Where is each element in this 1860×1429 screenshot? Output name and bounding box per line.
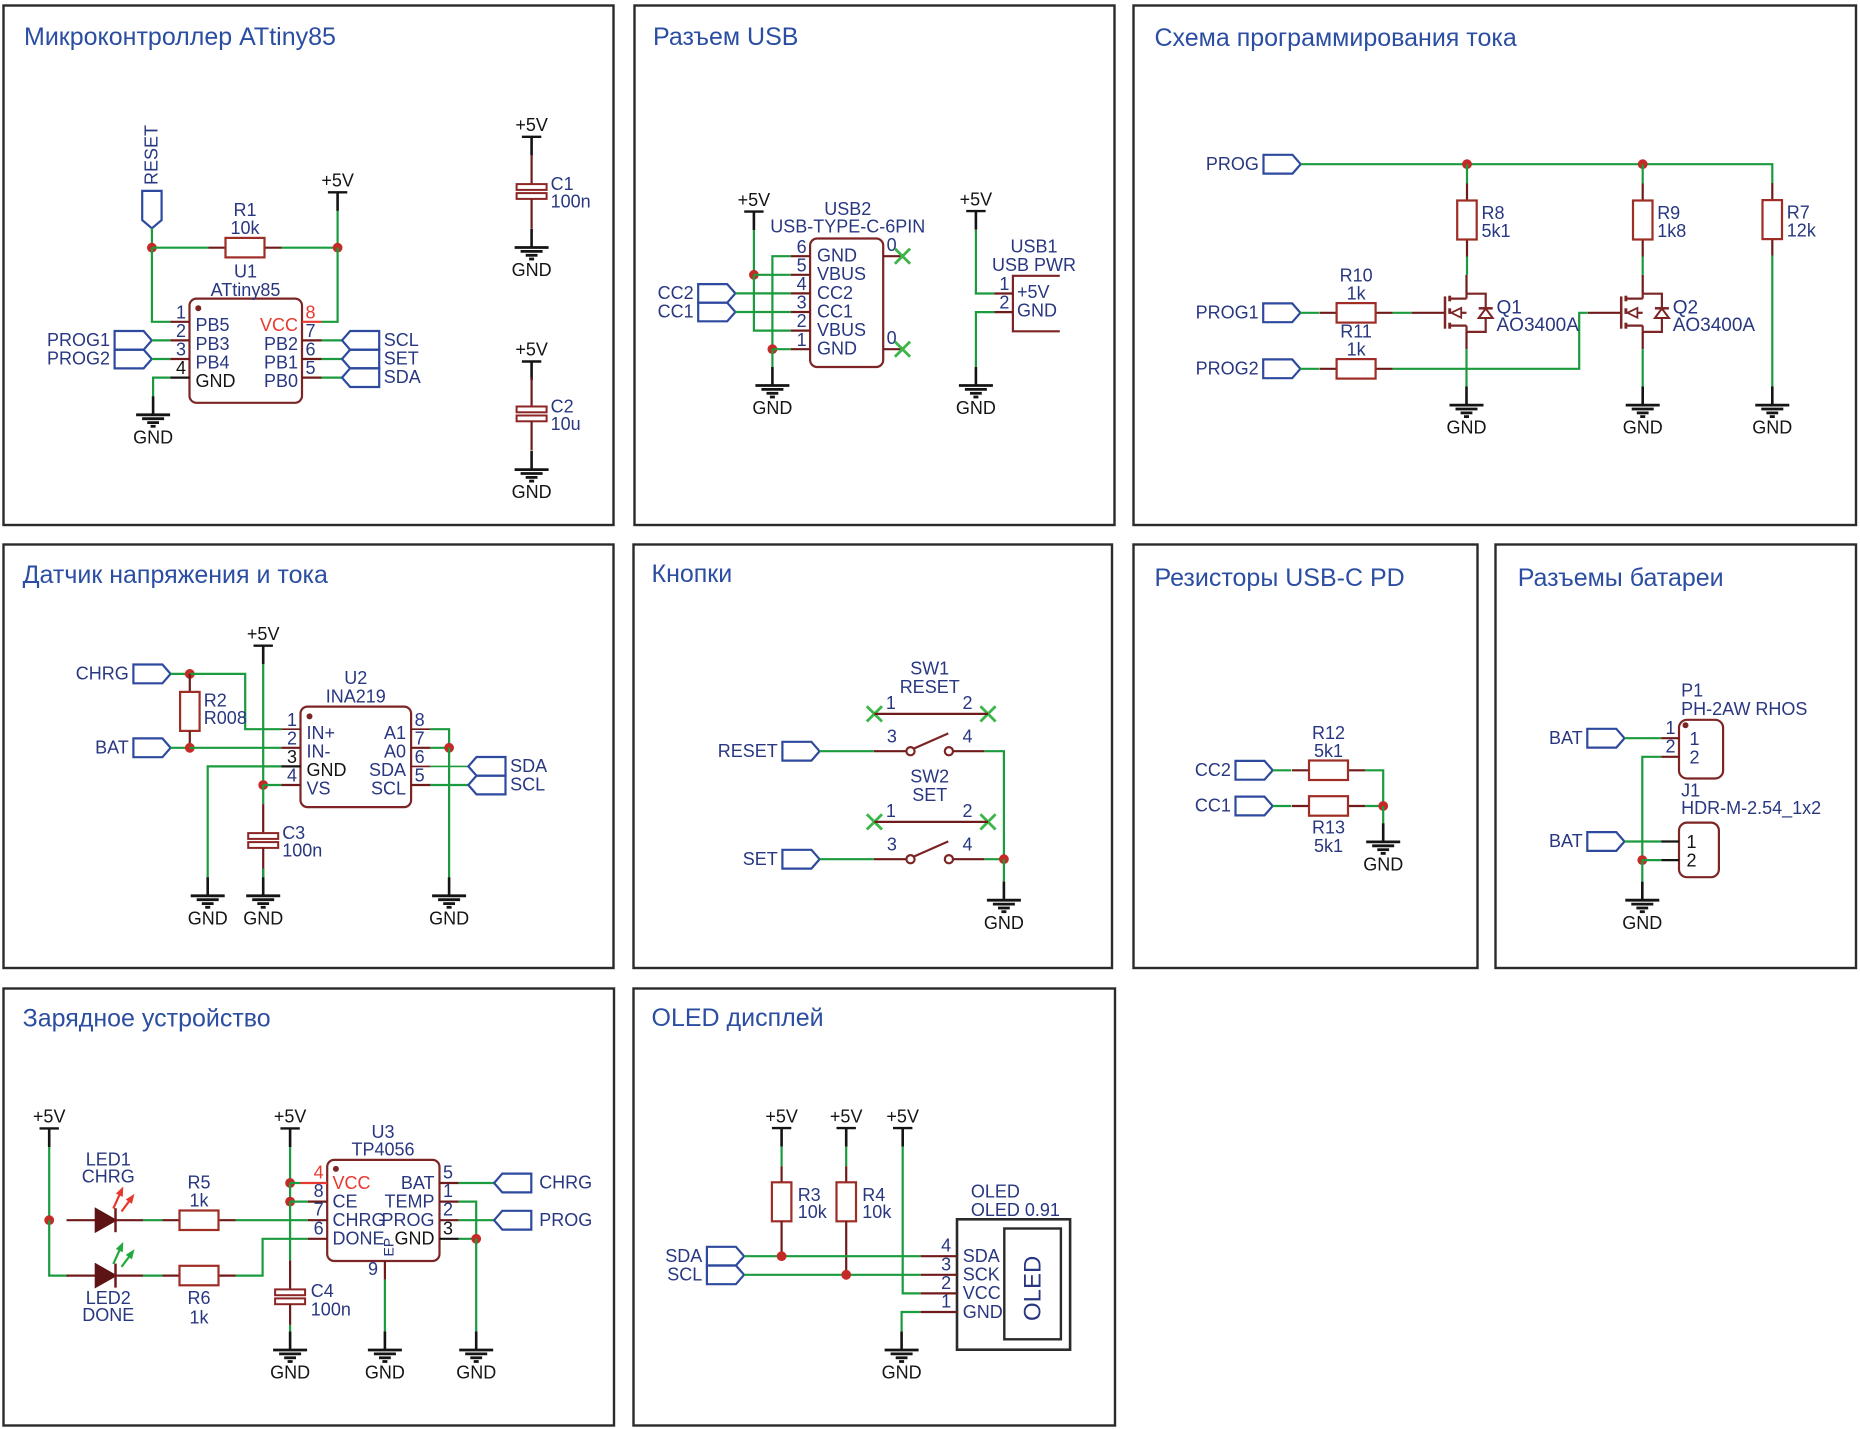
svg-text:1: 1 xyxy=(1690,729,1700,749)
ground under C1 xyxy=(512,229,552,280)
USB2 pin 0 bottom-right shield xyxy=(883,328,902,349)
junction RESET node left of R1 xyxy=(147,243,157,253)
ground USB-C PD xyxy=(1363,823,1403,874)
svg-text:8: 8 xyxy=(415,710,425,730)
junction VCC node xyxy=(285,1178,295,1188)
wire Q1 source to ground xyxy=(1465,349,1467,386)
svg-text:GND: GND xyxy=(963,1302,1003,1322)
wire PROG node down to R8 xyxy=(1466,164,1468,183)
svg-text:5k1: 5k1 xyxy=(1314,836,1343,856)
wire VS node down to C3 xyxy=(262,785,264,804)
resistor R11 (1k) xyxy=(1320,321,1393,378)
USB2 pin 0 top-right shield xyxy=(883,235,902,256)
wire SDA to OLED pin4 xyxy=(744,1255,921,1257)
wire U2 SCL to port xyxy=(430,784,468,786)
svg-text:1: 1 xyxy=(176,302,186,322)
svg-text:SCL: SCL xyxy=(510,775,545,795)
svg-text:OLED: OLED xyxy=(1020,1256,1047,1321)
panel frame: Разъем USB xyxy=(635,6,1115,526)
no-connect X SW1 pin1 xyxy=(867,706,882,721)
svg-text:+5V: +5V xyxy=(738,190,771,210)
resistor R6 (1k) xyxy=(163,1266,236,1328)
svg-text:8: 8 xyxy=(306,302,316,322)
svg-text:7: 7 xyxy=(415,728,425,748)
P1 pin 1 xyxy=(1661,718,1699,749)
svg-text:1k: 1k xyxy=(1347,339,1367,359)
svg-text:1: 1 xyxy=(443,1181,453,1201)
svg-text:1: 1 xyxy=(886,801,896,821)
op-amp U2 INA219 body xyxy=(301,668,412,807)
svg-text:GND: GND xyxy=(133,427,173,447)
svg-text:RESET: RESET xyxy=(142,125,162,185)
svg-text:3: 3 xyxy=(887,726,897,746)
junction battery GND node xyxy=(1637,855,1647,865)
wire +5V down to USB1 pin1 xyxy=(976,230,994,294)
U3 pin 6 DONE xyxy=(308,1218,385,1248)
net port RESET (vertical flag) xyxy=(142,125,162,228)
no-connect X USB2 shield top xyxy=(895,249,910,264)
svg-text:GND: GND xyxy=(243,908,283,928)
svg-text:4: 4 xyxy=(941,1236,951,1256)
svg-text:R8: R8 xyxy=(1482,203,1505,223)
junction R3/SDA node xyxy=(777,1251,787,1261)
svg-text:OLED: OLED xyxy=(971,1181,1020,1201)
wire P1 pin2 down to node xyxy=(1642,757,1661,860)
svg-text:9: 9 xyxy=(368,1259,378,1279)
svg-text:SET: SET xyxy=(912,785,947,805)
svg-text:PB2: PB2 xyxy=(264,334,298,354)
connector J1 HDR-M-2.54_1x2 body xyxy=(1679,780,1821,877)
U3 pin 3 GND xyxy=(395,1218,459,1248)
svg-text:6: 6 xyxy=(797,237,807,257)
svg-text:ATtiny85: ATtiny85 xyxy=(211,280,281,300)
net port SCL (panel 9) xyxy=(667,1264,744,1284)
junction BAT/R2 node xyxy=(185,743,195,753)
net port PROG (panel 8) xyxy=(494,1210,592,1230)
svg-text:GND: GND xyxy=(1752,418,1792,438)
wire BAT to J1 pin1 xyxy=(1625,840,1662,842)
no-connect X USB2 shield bottom xyxy=(895,342,910,357)
junction SW node to GND xyxy=(999,854,1009,864)
ground under EP xyxy=(365,1331,405,1382)
J1 pin 1 xyxy=(1661,832,1696,852)
svg-text:4: 4 xyxy=(797,274,807,294)
svg-text:3: 3 xyxy=(287,747,297,767)
wire PROG2 to R11 xyxy=(1300,368,1319,370)
junction R12/R13 node xyxy=(1378,801,1388,811)
wire U1 pin6 to SET port xyxy=(322,358,343,360)
OLED pin 2 VCC xyxy=(921,1273,1001,1303)
panel frame: Схема программирования тока xyxy=(1134,6,1857,526)
svg-text:Микроконтроллер ATtiny85: Микроконтроллер ATtiny85 xyxy=(24,23,336,51)
+5V power LED supply xyxy=(33,1107,66,1147)
+5V power U3 supply xyxy=(274,1107,307,1147)
wire U3 TEMP down to GND node xyxy=(459,1202,476,1239)
svg-text:3: 3 xyxy=(941,1254,951,1274)
svg-text:Кнопки: Кнопки xyxy=(652,560,733,588)
svg-text:5k1: 5k1 xyxy=(1314,741,1343,761)
svg-text:A0: A0 xyxy=(384,741,406,761)
svg-text:3: 3 xyxy=(443,1218,453,1238)
U3 pin 9 EP xyxy=(368,1259,385,1280)
svg-text:2: 2 xyxy=(1687,851,1697,871)
svg-text:PB4: PB4 xyxy=(196,352,230,372)
U1 pin 1 PB5 xyxy=(170,302,229,335)
U3 pin 2 PROG xyxy=(381,1200,458,1230)
net port SCL xyxy=(342,330,419,350)
svg-text:VBUS: VBUS xyxy=(817,320,866,340)
Q2 drain stub xyxy=(1642,275,1644,294)
svg-text:R7: R7 xyxy=(1787,203,1810,223)
svg-text:1k: 1k xyxy=(189,1191,209,1211)
wire CC2 port to USB2 pin4 xyxy=(735,292,790,294)
U3 pin 7 CHRG xyxy=(308,1200,386,1230)
svg-text:2: 2 xyxy=(963,693,973,713)
USB2 pin 6 GND xyxy=(791,237,857,266)
wire GND node to USB2 pin1 xyxy=(772,348,790,350)
svg-text:SDA: SDA xyxy=(510,756,547,776)
svg-text:CHRG: CHRG xyxy=(333,1210,386,1230)
svg-text:+5V: +5V xyxy=(33,1107,66,1127)
svg-text:Резисторы USB-C PD: Резисторы USB-C PD xyxy=(1155,564,1405,592)
resistor R9 (1k8) xyxy=(1633,184,1686,257)
wire SW1 pin4 to vertical xyxy=(984,751,1004,859)
U1 pin 2 PB3 xyxy=(170,321,229,354)
U3 pin 5 BAT xyxy=(401,1163,459,1193)
op-amp U3 TP4056 body xyxy=(327,1122,439,1261)
svg-text:R5: R5 xyxy=(187,1173,210,1193)
junction LED1 anode node xyxy=(44,1215,54,1225)
resistor R10 (1k) xyxy=(1320,265,1393,322)
net port SDA xyxy=(342,367,421,387)
U2 pin 1 IN+ xyxy=(281,710,335,743)
transistor Q2 AO3400A xyxy=(1588,294,1756,336)
wire C3 bottom to ground xyxy=(262,869,264,878)
svg-text:DONE: DONE xyxy=(82,1305,134,1325)
svg-text:GND: GND xyxy=(365,1363,405,1383)
svg-text:BAT: BAT xyxy=(1549,831,1583,851)
ground battery xyxy=(1622,882,1662,933)
junction GND pin1 node xyxy=(768,344,778,354)
svg-text:GND: GND xyxy=(1363,855,1403,875)
wire CHRG to junction xyxy=(171,673,190,675)
svg-text:USB-TYPE-C-6PIN: USB-TYPE-C-6PIN xyxy=(770,217,925,237)
svg-text:GND: GND xyxy=(512,482,552,502)
+5V power R3 supply xyxy=(765,1106,798,1146)
+5V power R4 supply xyxy=(830,1106,863,1146)
+5V power USB1 xyxy=(960,189,993,229)
svg-text:+5V: +5V xyxy=(886,1106,919,1126)
wire node down to ground xyxy=(1003,859,1005,881)
no-connect X SW2 pin1 xyxy=(867,814,882,829)
svg-text:Разъемы батареи: Разъемы батареи xyxy=(1518,564,1724,592)
wire U3 PROG to PROG port xyxy=(459,1219,494,1221)
U1 pin 3 PB4 xyxy=(170,340,229,373)
svg-text:VCC: VCC xyxy=(333,1173,371,1193)
svg-text:GND: GND xyxy=(188,908,228,928)
R2 top pin wire xyxy=(189,674,191,692)
svg-text:TP4056: TP4056 xyxy=(351,1140,414,1160)
wire C4 bottom to ground xyxy=(289,1325,291,1332)
wire R13 to node xyxy=(1365,805,1383,807)
wire +5V node down to U1 pin8 VCC xyxy=(322,248,338,322)
svg-text:100n: 100n xyxy=(311,1299,351,1319)
wire R7 bottom to ground xyxy=(1771,255,1773,386)
svg-text:PROG: PROG xyxy=(381,1210,434,1230)
wire U2 pin3 GND to ground xyxy=(208,766,282,877)
wire node down to ground xyxy=(1641,860,1643,882)
svg-text:3: 3 xyxy=(176,340,186,360)
panel frame: OLED дисплей xyxy=(634,989,1116,1426)
svg-text:1: 1 xyxy=(797,330,807,350)
wire U2 SDA to port xyxy=(430,765,468,767)
no-connect X SW2 pin2 xyxy=(980,814,995,829)
panel frame: Разъемы батареи xyxy=(1496,545,1857,969)
resistor R7 (12k) xyxy=(1763,183,1817,256)
svg-text:P1: P1 xyxy=(1681,681,1703,701)
svg-text:4: 4 xyxy=(314,1163,324,1183)
U2 pin 4 VS xyxy=(281,766,330,799)
svg-text:6: 6 xyxy=(415,747,425,767)
junction CE node xyxy=(285,1197,295,1207)
wire BAT node to U2 pin2 IN- xyxy=(190,747,281,749)
wire USB1 pin2 to ground xyxy=(976,312,994,367)
wire R9 bottom to Q2 drain xyxy=(1642,257,1644,275)
ground under C4 xyxy=(270,1331,310,1382)
Q1 source stub xyxy=(1465,332,1467,349)
svg-text:+5V: +5V xyxy=(515,115,548,135)
svg-text:1k: 1k xyxy=(1347,283,1367,303)
net port SCL (panel 4) xyxy=(468,775,545,795)
wire junction down to U1 pin1 xyxy=(152,248,170,322)
net port PROG xyxy=(1206,154,1301,174)
wire R12 to bend xyxy=(1365,770,1383,806)
wire U1 pin5 to SDA port xyxy=(322,377,343,379)
wire OLED GND pin to ground xyxy=(902,1312,921,1331)
svg-text:R10: R10 xyxy=(1340,265,1373,285)
resistor R2 (R008) xyxy=(180,690,247,747)
svg-text:+5V: +5V xyxy=(960,189,993,209)
svg-text:5k1: 5k1 xyxy=(1482,221,1511,241)
svg-text:VCC: VCC xyxy=(963,1283,1001,1303)
wire +5V down to VCC junction xyxy=(289,1147,291,1183)
ground left under U2 xyxy=(188,877,228,928)
svg-text:2: 2 xyxy=(287,728,297,748)
net port BAT xyxy=(1549,831,1624,851)
svg-text:R13: R13 xyxy=(1312,818,1345,838)
U2 pin 2 IN- xyxy=(281,728,330,761)
ground under C2 xyxy=(512,451,552,502)
U2 pin 5 SCL xyxy=(371,766,430,799)
wire R8 bottom to Q1 drain xyxy=(1466,257,1468,275)
+5V power OLED VCC supply xyxy=(886,1106,919,1146)
wire LED1 cathode to R5 xyxy=(143,1219,163,1221)
USB2 pin 5 VBUS xyxy=(791,255,866,284)
wire PROG1 to R10 xyxy=(1300,312,1319,314)
wire R5 to U3 pin7 CHRG xyxy=(236,1219,308,1221)
svg-text:SDA: SDA xyxy=(369,760,406,780)
svg-text:3: 3 xyxy=(797,293,807,313)
svg-text:SDA: SDA xyxy=(963,1246,1000,1266)
svg-text:Датчик напряжения и тока: Датчик напряжения и тока xyxy=(23,561,328,589)
svg-text:U1: U1 xyxy=(234,261,257,281)
svg-text:GND: GND xyxy=(817,246,857,266)
svg-text:USB PWR: USB PWR xyxy=(992,255,1076,275)
svg-text:OLED 0.91: OLED 0.91 xyxy=(971,1200,1060,1220)
capacitor C1 (100n) xyxy=(517,155,591,228)
wire node down to ground xyxy=(475,1239,477,1332)
svg-text:10u: 10u xyxy=(551,414,581,434)
svg-text:GND: GND xyxy=(196,371,236,391)
wire SW2 pin4 to node xyxy=(984,858,1004,860)
svg-text:GND: GND xyxy=(956,398,996,418)
svg-text:5: 5 xyxy=(797,255,807,275)
svg-text:GND: GND xyxy=(1623,418,1663,438)
svg-text:VBUS: VBUS xyxy=(817,264,866,284)
wire EP to ground xyxy=(384,1280,386,1332)
Q1 drain stub xyxy=(1465,275,1467,294)
svg-text:2: 2 xyxy=(443,1200,453,1220)
svg-text:BAT: BAT xyxy=(95,737,129,757)
svg-text:INA219: INA219 xyxy=(326,686,386,706)
svg-text:USB1: USB1 xyxy=(1010,236,1057,256)
wire U3 GND to node xyxy=(459,1238,476,1240)
OLED pin 1 GND xyxy=(921,1292,1003,1322)
svg-text:SET: SET xyxy=(743,849,778,869)
resistor R8 (5k1) xyxy=(1457,184,1510,257)
svg-text:HDR-M-2.54_1x2: HDR-M-2.54_1x2 xyxy=(1681,798,1821,819)
net port CHRG xyxy=(76,664,171,684)
net port CC2 xyxy=(1195,760,1273,780)
ground under U3 right xyxy=(456,1331,496,1382)
svg-text:CC2: CC2 xyxy=(1195,760,1231,780)
svg-text:CHRG: CHRG xyxy=(82,1167,135,1187)
svg-text:GND: GND xyxy=(1447,418,1487,438)
svg-text:6: 6 xyxy=(306,340,316,360)
net port SDA (panel 9) xyxy=(665,1246,744,1266)
svg-text:DONE: DONE xyxy=(333,1229,385,1249)
svg-text:SCL: SCL xyxy=(384,330,419,350)
wire RESET port to SW1 xyxy=(820,750,874,752)
svg-text:+5V: +5V xyxy=(321,171,354,191)
wire U1 pin4 to ground xyxy=(153,378,170,397)
wire CC1 to R13 xyxy=(1273,805,1292,807)
svg-text:SDA: SDA xyxy=(665,1246,702,1266)
wire node down to ground xyxy=(1382,806,1384,823)
+5V power above C2 xyxy=(515,340,548,380)
net port CC1 xyxy=(1195,796,1273,816)
wire R10 to Q1 gate xyxy=(1393,312,1412,314)
svg-text:1k: 1k xyxy=(189,1308,209,1328)
USB1 pin 1 +5V xyxy=(994,274,1049,302)
junction PROG/R8 node xyxy=(1462,159,1472,169)
op-amp U1 ATtiny85 body xyxy=(190,261,303,402)
svg-text:100n: 100n xyxy=(551,191,591,211)
junction VBUS pin5 node xyxy=(749,270,759,280)
svg-text:R11: R11 xyxy=(1340,321,1372,341)
svg-text:GND: GND xyxy=(307,760,347,780)
junction +5V / R1 right node xyxy=(333,243,343,253)
net port CHRG (panel 8) xyxy=(494,1173,592,1193)
module OLED (OLED 0.91) body xyxy=(957,1181,1070,1349)
svg-text:A1: A1 xyxy=(384,723,406,743)
wire SET port to SW2 xyxy=(820,858,874,860)
wire SCL to OLED pin3 xyxy=(744,1274,921,1276)
switch SW2 (SET) xyxy=(874,766,988,863)
resistor R12 (5k1) xyxy=(1292,723,1365,780)
U1 pin 6 PB1 xyxy=(264,340,322,373)
wire PROG2 to U1 pin3 xyxy=(152,358,170,360)
svg-text:R008: R008 xyxy=(204,708,247,728)
svg-text:GND: GND xyxy=(1017,301,1057,321)
ground buttons xyxy=(984,882,1024,933)
svg-text:5: 5 xyxy=(443,1163,453,1183)
svg-text:1k8: 1k8 xyxy=(1657,221,1686,241)
wire BAT to junction xyxy=(171,747,190,749)
USB1 pin 2 GND xyxy=(994,293,1057,321)
svg-text:PH-2AW RHOS: PH-2AW RHOS xyxy=(1681,699,1807,719)
svg-text:PROG2: PROG2 xyxy=(47,349,110,369)
svg-text:PROG: PROG xyxy=(539,1210,592,1230)
USB2 pin 2 VBUS xyxy=(791,311,866,340)
resistor R1 (10k) xyxy=(209,200,282,257)
R4 top wire xyxy=(845,1147,847,1167)
svg-text:+5V: +5V xyxy=(247,624,280,644)
svg-text:PB1: PB1 xyxy=(264,352,298,372)
net port CC2 (panel 2) xyxy=(658,283,736,303)
svg-text:5: 5 xyxy=(306,358,316,378)
OLED pin 3 SCK xyxy=(921,1254,1000,1284)
ground under C3 xyxy=(243,877,283,928)
net port SET xyxy=(743,849,820,869)
svg-text:GND: GND xyxy=(395,1229,435,1249)
resistor R5 (1k) xyxy=(163,1173,236,1230)
net port CC1 (panel 2) xyxy=(658,302,736,322)
svg-text:U2: U2 xyxy=(344,668,367,688)
capacitor C4 (100n) xyxy=(275,1281,351,1325)
net port BAT xyxy=(95,737,170,757)
wire C1 bottom to ground stem xyxy=(530,227,532,230)
svg-text:100n: 100n xyxy=(282,840,322,860)
svg-text:CHRG: CHRG xyxy=(539,1173,592,1193)
svg-text:+5V: +5V xyxy=(274,1107,307,1127)
panel frame: Зарядное устройство xyxy=(4,989,615,1426)
svg-text:SCL: SCL xyxy=(667,1264,702,1284)
capacitor C3 (100n) xyxy=(248,804,322,877)
ground under Q1 xyxy=(1447,387,1487,438)
wire node down to LED2 xyxy=(49,1220,68,1275)
svg-text:RESET: RESET xyxy=(900,677,960,697)
U3 pin 8 CE xyxy=(308,1181,358,1211)
svg-text:R9: R9 xyxy=(1657,203,1680,223)
svg-text:GND: GND xyxy=(270,1363,310,1383)
U2 pin 7 A0 xyxy=(384,728,430,761)
net port RESET xyxy=(718,741,820,761)
svg-text:Зарядное устройство: Зарядное устройство xyxy=(23,1005,271,1033)
svg-text:GND: GND xyxy=(456,1363,496,1383)
svg-text:GND: GND xyxy=(429,908,469,928)
wire U3 BAT to CHRG port xyxy=(459,1182,494,1184)
net port PROG2 xyxy=(1196,358,1301,378)
svg-text:10k: 10k xyxy=(230,218,260,238)
wire PROG1 to U1 pin2 xyxy=(152,339,170,341)
ground under U1 xyxy=(133,396,173,447)
panel frame: Микроконтроллер ATtiny85 xyxy=(4,6,614,526)
net port SDA (panel 4) xyxy=(468,756,547,776)
capacitor C2 (10u) xyxy=(517,378,581,451)
svg-text:CC2: CC2 xyxy=(817,283,853,303)
svg-text:Разъем USB: Разъем USB xyxy=(653,23,798,51)
